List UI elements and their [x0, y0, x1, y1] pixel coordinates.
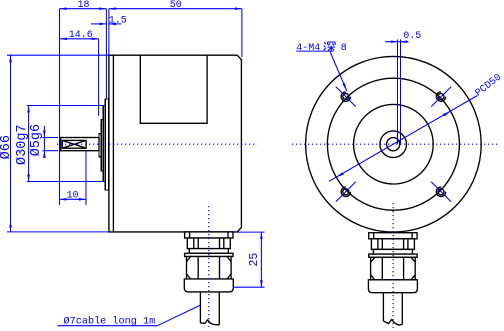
extension line body bottom: [7, 231, 109, 233]
dim 25 line: [260, 232, 262, 287]
gland washer: [189, 249, 228, 254]
shaft diameter 5g6: [60, 138, 99, 151]
cable right edge: [401, 293, 403, 325]
PCD50 arrow upper-right: [443, 111, 451, 116]
PCD50 arrow lower-left: [336, 172, 344, 177]
gland top flange: [369, 233, 417, 239]
left cable gland: [184, 232, 233, 325]
shaft flat diagonal 1: [62, 140, 86, 148]
svg-text:Ø7cable long 1m: Ø7cable long 1m: [64, 315, 156, 327]
dim 14.6 line: [60, 38, 99, 40]
svg-text:0.5: 0.5: [403, 31, 421, 42]
dim d66 arrow top: [9, 55, 12, 62]
dim diameter 66 line: [10, 55, 12, 232]
gland top flange inner line left: [189, 232, 191, 238]
outer circle d66: [306, 56, 482, 232]
gland top flange inner line right: [227, 232, 229, 238]
cable left edge: [382, 293, 384, 321]
gland hex chamfer top-right: [227, 257, 231, 262]
dim 10 line: [60, 198, 87, 200]
boss circle d30: [354, 104, 434, 184]
centerline left view: [57, 143, 257, 145]
gland hex facet left: [197, 257, 199, 280]
dim 50 arrow left: [109, 7, 116, 10]
gland hex chamfer top-right: [411, 257, 415, 262]
dim d5 arrow top: [43, 131, 46, 138]
gland top flange inner line left: [373, 233, 375, 239]
gland nut: [187, 238, 230, 249]
gland washer: [373, 249, 412, 254]
hole slash top-left: [336, 87, 356, 107]
PCD50 dimension line: [329, 96, 477, 182]
cable note underline: [57, 325, 157, 327]
gland hex facet right: [219, 257, 221, 280]
svg-text:8: 8: [341, 43, 347, 54]
svg-text:10: 10: [66, 190, 78, 201]
cable left edge: [199, 292, 201, 323]
gland nut: [371, 239, 414, 250]
hole slash bottom-left: [336, 182, 356, 202]
body outline left view: [109, 55, 242, 232]
svg-text:18: 18: [77, 0, 89, 11]
dim 14.6 arrow right: [92, 38, 99, 41]
recess rectangle: [140, 56, 207, 124]
extension line 25 top: [236, 231, 265, 233]
gland hex chamfer top-left: [187, 257, 191, 262]
dim 1.5 left segment: [91, 23, 106, 25]
front cover joint line: [112, 55, 114, 232]
svg-text:Ø5g6: Ø5g6: [29, 124, 44, 156]
hole slash top-right: [431, 87, 451, 107]
extension line flat end: [85, 151, 87, 205]
hub step 1: [99, 134, 101, 157]
extension line hub face: [98, 39, 100, 116]
svg-text:Ø66: Ø66: [0, 135, 14, 159]
extension line shaft end: [59, 9, 61, 205]
screw hole top-left: [341, 92, 350, 101]
gland top flange inner line right: [411, 233, 413, 239]
gland nut facet lines: [377, 239, 379, 250]
shaft circle d5: [387, 138, 400, 151]
centerline horizontal right view: [292, 143, 500, 145]
dim 1.5 arrow right: [109, 23, 116, 26]
gland hex chamfer bottom-right: [411, 275, 415, 280]
gland ring: [185, 253, 233, 256]
svg-text:50: 50: [170, 0, 182, 11]
extension line body front above: [108, 9, 110, 56]
PCD50 circle: [327, 78, 459, 210]
svg-text:25: 25: [248, 253, 261, 267]
dim 18 line: [60, 8, 107, 10]
dim d66 arrow bottom: [9, 225, 12, 232]
extension line boss top: [27, 105, 104, 107]
dim diameter 5g6 line: [43, 126, 45, 158]
dim 50 arrow right: [235, 7, 242, 10]
gland ring: [369, 254, 417, 257]
dim 18 arrow left: [60, 7, 67, 10]
dim 10 arrow right: [79, 198, 86, 201]
dim 0.5 arrow right: [400, 40, 407, 43]
cable break wave: [383, 320, 402, 325]
dim d30 arrow bottom: [27, 175, 30, 182]
extension line shaft bottom: [42, 150, 58, 152]
shaft flat box: [62, 140, 86, 148]
dim 0.5 arrow left: [391, 40, 398, 43]
flange plate: [105, 99, 109, 190]
svg-text:1.5: 1.5: [109, 16, 127, 27]
dim 0.5 extension line left: [397, 40, 399, 145]
CJK depth glyph: [324, 42, 336, 51]
leader 4-M4: [330, 52, 347, 92]
dim 0.5 extension line right: [400, 40, 402, 145]
dim 25 arrow bottom: [260, 280, 263, 287]
extension line body top: [7, 54, 109, 56]
dim 14.6 arrow left: [60, 38, 67, 41]
svg-text:Ø30g7: Ø30g7: [15, 124, 30, 165]
hub step 2: [101, 120, 103, 171]
svg-text:4-M4: 4-M4: [296, 43, 320, 54]
gland hex body: [371, 257, 416, 280]
gland hex chamfer bottom-left: [187, 274, 191, 279]
extension line boss bottom: [27, 181, 104, 183]
hub circle: [380, 131, 407, 158]
dim d30 arrow top: [27, 106, 30, 113]
dim 18 arrow right: [99, 7, 106, 10]
cable right edge: [218, 292, 220, 325]
boss diameter 30g7: [103, 106, 105, 182]
extension line shaft top: [42, 137, 58, 139]
leader cable note: [157, 305, 200, 326]
gland top flange: [185, 232, 233, 238]
extension line body right top: [241, 9, 243, 57]
gland hex body: [187, 257, 232, 280]
screw hole bottom-right: [436, 187, 445, 196]
gland hex chamfer bottom-left: [371, 275, 375, 280]
dim 1.5 right segment: [109, 23, 122, 25]
gland bottom collar: [368, 280, 417, 293]
dim d5 arrow bottom: [43, 151, 46, 158]
screw hole bottom-left: [341, 187, 350, 196]
gland hex chamfer bottom-right: [227, 274, 231, 279]
right cable gland: [368, 233, 417, 325]
gland hex chamfer top-left: [371, 257, 375, 262]
extension line plate front: [105, 9, 107, 99]
svg-text:14.6: 14.6: [69, 30, 93, 41]
gland hex facet right: [403, 257, 405, 280]
dim 50 line: [109, 8, 242, 10]
centerline left gland: [208, 206, 210, 327]
gland hex facet left: [381, 257, 383, 280]
dim 0.5 line: [385, 41, 408, 43]
gland bottom collar: [184, 279, 233, 292]
dim 10 arrow left: [60, 198, 67, 201]
gland nut facet lines: [193, 238, 195, 249]
dim 25 arrow top: [260, 232, 263, 239]
centerline vertical right view: [392, 203, 394, 328]
cable break wave: [200, 320, 219, 325]
hole slash bottom-right: [431, 182, 451, 202]
screw hole top-right: [436, 92, 445, 101]
shaft end edge: [60, 138, 62, 151]
label 4-M4 underline: [296, 50, 333, 52]
shaft flat diagonal 2: [62, 140, 86, 148]
leader 4-M4 arrow: [343, 83, 347, 91]
dim 1.5 arrow left: [99, 23, 106, 26]
dim diameter 30g7 line: [28, 106, 30, 182]
extension line 25 bottom: [233, 286, 265, 288]
